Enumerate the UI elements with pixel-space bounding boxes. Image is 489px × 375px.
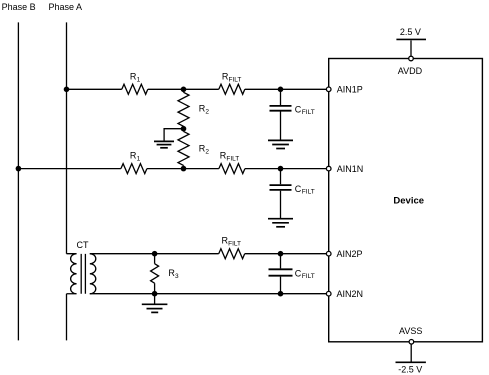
wire: Phase B vertical line <box>17 22 19 340</box>
wire: AIN1N row (row 2) horizontal segments <box>18 168 326 170</box>
resistor RFILT (row 3) <box>219 249 245 259</box>
svg-text:FILT: FILT <box>228 240 241 247</box>
wire: AIN2N row (row 4) horizontal segment <box>90 293 326 295</box>
resistor RFILT (row 1) <box>219 84 245 94</box>
resistor R3 <box>154 254 156 264</box>
svg-text:Phase A: Phase A <box>49 2 83 12</box>
transformer CT core <box>81 254 85 294</box>
wire: R2 midpoint tap to ground <box>164 129 183 141</box>
svg-text:FILT: FILT <box>302 273 315 280</box>
svg-text:FILT: FILT <box>302 109 315 116</box>
junction dot: R2 midpoint node <box>181 126 187 132</box>
svg-text:Device: Device <box>393 195 424 206</box>
resistor R2 (lower) <box>183 129 185 132</box>
wire: Phase A vertical line (above and below CT) <box>66 22 68 340</box>
svg-text:C: C <box>295 268 302 278</box>
2.5 V supply rail bar and stem <box>396 38 426 40</box>
svg-text:CT: CT <box>77 240 89 250</box>
transformer CT primary winding <box>67 254 77 294</box>
pin circle AIN2P <box>326 251 331 256</box>
svg-text:2: 2 <box>205 149 209 156</box>
resistor R1 (row 1) <box>122 84 148 94</box>
junction dot: row 3 / CFILT top <box>278 251 284 257</box>
svg-text:AIN1N: AIN1N <box>337 164 364 174</box>
svg-text:AVDD: AVDD <box>398 66 423 76</box>
svg-text:AVSS: AVSS <box>399 326 422 336</box>
ground (below R3) <box>154 294 156 304</box>
svg-text:FILT: FILT <box>226 155 239 162</box>
capacitor CFILT (row 3, differential between AIN2P and AIN2N) <box>280 254 282 269</box>
svg-text:C: C <box>295 184 302 194</box>
junction dot: row 1 / CFILT <box>278 87 284 93</box>
junction dot: row 2 / CFILT <box>278 166 284 172</box>
svg-text:Phase B: Phase B <box>2 2 36 12</box>
svg-text:AIN1P: AIN1P <box>337 85 363 95</box>
pin circle AIN2N <box>326 291 331 296</box>
pin circle AIN1N <box>326 166 331 171</box>
svg-text:C: C <box>295 104 302 114</box>
svg-text:2.5 V: 2.5 V <box>400 27 421 37</box>
svg-text:2: 2 <box>205 108 209 115</box>
svg-text:FILT: FILT <box>229 76 242 83</box>
junction dot: Phase B / row 2 <box>16 166 22 172</box>
svg-text:FILT: FILT <box>302 189 315 196</box>
ground (below CFILT row 1) <box>268 140 293 148</box>
capacitor CFILT (row 2) <box>280 169 282 185</box>
pin circle AIN1P <box>326 87 331 92</box>
device box outline <box>329 59 483 342</box>
pin circle AVDD <box>409 56 414 61</box>
svg-text:3: 3 <box>175 273 179 280</box>
junction dot: row 2 / R2 bottom <box>181 166 187 172</box>
ground (R2 midpoint tap) <box>154 141 174 147</box>
pin circle AVSS <box>409 340 414 345</box>
svg-text:AIN2N: AIN2N <box>337 289 364 299</box>
junction dot: row 3 / R3 top <box>152 251 158 257</box>
capacitor CFILT (row 1) <box>280 89 282 105</box>
svg-text:AIN2P: AIN2P <box>337 249 363 259</box>
svg-text:1: 1 <box>137 76 141 83</box>
junction dot: row 1 / R2 top <box>181 87 187 93</box>
-2.5 V supply rail stem and bar <box>410 345 412 363</box>
junction dot: row 4 / CFILT bottom <box>278 291 284 297</box>
svg-text:-2.5 V: -2.5 V <box>398 364 422 374</box>
svg-text:1: 1 <box>137 155 141 162</box>
junction dot: Phase A / row 1 <box>64 87 70 93</box>
ground (below CFILT row 2) <box>268 219 293 227</box>
junction dot: row 4 / R3 bottom <box>152 291 158 297</box>
wire: AIN2P row (row 3) horizontal segments <box>90 253 326 255</box>
resistor RFILT (row 2) <box>219 164 245 174</box>
transformer CT secondary winding <box>90 254 96 294</box>
resistor R1 (row 2) <box>121 164 147 174</box>
resistor R2 (upper) <box>183 89 185 92</box>
wire: AIN1P row (row 1) horizontal segments <box>67 88 327 90</box>
